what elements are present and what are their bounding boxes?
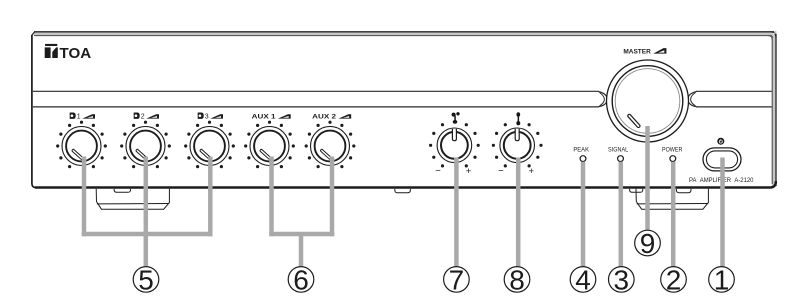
svg-text:AUX 1: AUX 1 xyxy=(252,113,276,120)
svg-text:1: 1 xyxy=(77,114,81,121)
knob MIC2 xyxy=(120,121,171,169)
callout circle 9 xyxy=(635,228,661,259)
svg-text:9: 9 xyxy=(640,228,656,259)
wire AUX1 down xyxy=(269,157,274,237)
wire BASS down xyxy=(454,158,459,267)
svg-text:SIGNAL: SIGNAL xyxy=(608,146,629,153)
wire MASTER down xyxy=(645,126,650,230)
wire MIC3 down xyxy=(208,157,213,237)
svg-text:8: 8 xyxy=(509,264,525,295)
LED POWER xyxy=(670,156,676,162)
callout circle 3 xyxy=(609,264,635,295)
power symbol xyxy=(717,138,724,145)
label MIC3 xyxy=(198,113,223,121)
wire MIC connector xyxy=(82,232,213,237)
wire PEAK down xyxy=(581,162,586,266)
callout circle 6 xyxy=(288,264,314,295)
wire TREBLE down xyxy=(516,158,521,267)
panel top-left corner bevel xyxy=(32,32,35,36)
panel top-right corner xyxy=(770,32,776,38)
callout circle 5 xyxy=(133,264,159,295)
callout circle 7 xyxy=(444,264,470,295)
panel left edge xyxy=(32,35,36,188)
front groove line upper xyxy=(33,90,599,92)
master wedge xyxy=(653,48,666,54)
wire SIGNAL down xyxy=(619,162,624,266)
groove chevron left of master knob xyxy=(599,92,608,107)
svg-text:−: − xyxy=(435,165,441,176)
svg-text:+: + xyxy=(529,166,535,177)
TOA logo mark xyxy=(45,44,58,58)
svg-text:POWER: POWER xyxy=(662,146,683,153)
knob BASS xyxy=(429,123,480,167)
svg-text:+: + xyxy=(466,166,472,177)
label MIC2 xyxy=(134,113,159,121)
knob AUX2 xyxy=(305,121,356,169)
svg-text:−: − xyxy=(498,165,504,176)
svg-text:2: 2 xyxy=(141,114,145,121)
LED SIGNAL xyxy=(618,156,624,162)
svg-text:6: 6 xyxy=(293,264,309,295)
callout circle 4 xyxy=(570,264,596,295)
svg-text:7: 7 xyxy=(449,264,465,295)
wire POWER LED down xyxy=(671,162,676,266)
bottom center tab xyxy=(395,189,411,193)
callout circle 2 xyxy=(661,264,687,295)
knob TREBLE xyxy=(492,123,543,167)
callout lines (gray) xyxy=(82,126,723,266)
bass icon xyxy=(452,112,460,124)
left foot xyxy=(96,189,169,209)
svg-text:MASTER: MASTER xyxy=(623,49,651,56)
svg-text:3: 3 xyxy=(205,114,209,121)
svg-text:5: 5 xyxy=(138,264,154,295)
label MIC1 xyxy=(70,113,95,121)
power button xyxy=(703,148,741,171)
groove chevron right of master knob xyxy=(688,92,697,107)
wire AUX stem xyxy=(299,234,304,266)
svg-text:1: 1 xyxy=(714,264,730,295)
svg-text:TOA: TOA xyxy=(60,46,92,62)
callout circle 8 xyxy=(504,264,530,295)
svg-text:3: 3 xyxy=(614,264,630,295)
treble icon xyxy=(516,112,520,125)
callout circle 1 xyxy=(709,264,735,295)
wire MIC1 down xyxy=(82,157,87,237)
panel right edge band xyxy=(772,33,777,186)
knob MIC3 xyxy=(184,121,235,169)
wire POWER button down xyxy=(720,158,725,267)
wire AUX connector xyxy=(269,232,334,237)
svg-text:PEAK: PEAK xyxy=(573,146,589,153)
label AUX1 xyxy=(252,113,291,120)
label AUX2 xyxy=(312,113,351,120)
panel top edge band xyxy=(34,31,777,36)
svg-text:4: 4 xyxy=(575,264,591,295)
wire AUX2 down xyxy=(330,157,335,237)
svg-text:2: 2 xyxy=(666,264,682,295)
knob AUX1 xyxy=(244,121,295,169)
right foot xyxy=(630,189,709,209)
wire MIC2 down xyxy=(144,157,149,267)
knob MIC1 xyxy=(56,121,107,169)
panel bottom edge xyxy=(35,181,776,188)
front groove line lower xyxy=(33,106,599,108)
master knob xyxy=(607,60,689,142)
LED PEAK xyxy=(580,156,586,162)
svg-text:AUX 2: AUX 2 xyxy=(312,113,336,120)
